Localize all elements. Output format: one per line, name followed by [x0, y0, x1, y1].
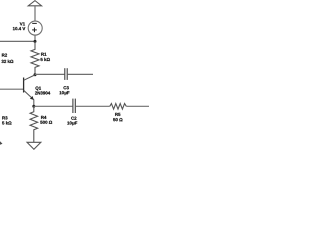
capacitor C2	[72, 99, 74, 113]
capacitor C3	[64, 68, 66, 80]
power symbol VCC triangle	[28, 1, 41, 6]
label 5 kOhm	[2, 121, 11, 124]
wire collector to C3	[35, 73, 64, 75]
wire emitter	[33, 100, 35, 107]
resistor R4	[30, 106, 37, 142]
label 32 kOhm	[2, 60, 14, 63]
label R5	[115, 113, 120, 116]
wire R5 output	[126, 105, 149, 107]
wire C2 to R5	[76, 105, 110, 107]
wire emitter to C2	[34, 105, 73, 107]
label 50 Ohm	[113, 118, 122, 121]
resistor R5	[110, 104, 127, 110]
wire C3 output	[68, 73, 93, 75]
label Q1	[36, 87, 42, 91]
label R1	[41, 53, 46, 56]
transistor Q1	[23, 78, 25, 93]
node junction top	[34, 40, 37, 43]
label C3	[64, 86, 69, 89]
label 500 Ohm	[40, 121, 52, 124]
wire below source	[34, 35, 36, 41]
wire top rail	[0, 40, 35, 42]
node junction collector	[34, 73, 37, 76]
wire stem	[34, 6, 36, 21]
ground	[27, 142, 41, 149]
label 10 uF	[67, 121, 77, 125]
label 10 uF	[60, 91, 70, 95]
label R3	[2, 116, 7, 119]
node junction emitter	[32, 105, 35, 108]
label V1	[20, 22, 25, 25]
label 10.4 V	[13, 27, 25, 30]
label 2N3904	[35, 91, 50, 94]
wire Q1 base	[0, 88, 24, 90]
resistor R1	[31, 41, 39, 74]
label 5 kOhm	[41, 58, 50, 61]
label R4	[41, 116, 46, 119]
edge fragment cropped symbol	[0, 141, 3, 145]
voltage source V1	[28, 21, 42, 35]
label R2	[2, 54, 7, 57]
label C2	[71, 117, 76, 120]
